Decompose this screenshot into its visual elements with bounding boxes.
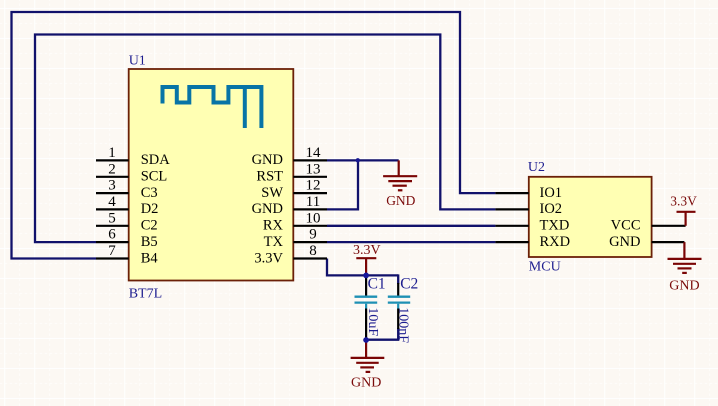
svg-text:GND: GND — [252, 201, 283, 217]
capacitor C2 — [388, 275, 418, 343]
U1 pin 4 (D2) — [96, 194, 158, 217]
U1 pin 13 (RST) — [256, 161, 327, 184]
svg-text:TXD: TXD — [540, 218, 570, 234]
ground GND bottom symbol — [351, 340, 385, 372]
svg-text:U2: U2 — [528, 160, 545, 175]
wire net B4 to U2 IO1 — [12, 12, 496, 259]
junction at GND net — [356, 158, 360, 162]
svg-text:D2: D2 — [141, 201, 159, 217]
U2 pin TXD — [495, 218, 569, 234]
svg-text:3.3V: 3.3V — [353, 243, 381, 258]
ground GND mid symbol — [383, 160, 417, 190]
svg-text:C2: C2 — [141, 218, 158, 234]
svg-text:9: 9 — [309, 227, 317, 243]
U1 pin 7 (B4) — [96, 243, 158, 266]
svg-text:BT7L: BT7L — [129, 286, 162, 301]
svg-text:SW: SW — [261, 185, 283, 201]
capacitor C1 — [355, 275, 386, 339]
svg-text:100nF: 100nF — [396, 307, 411, 343]
U1 pin 12 (SW) — [261, 178, 327, 201]
svg-text:11: 11 — [306, 194, 320, 210]
U1 pin 3 (C3) — [96, 178, 158, 201]
U1 antenna wave symbol — [163, 87, 262, 128]
wire C2 top branch — [397, 274, 399, 284]
U1 pin 1 (SDA) — [96, 145, 170, 168]
svg-text:13: 13 — [306, 161, 321, 177]
svg-text:6: 6 — [108, 227, 116, 243]
junction at bottom GND node — [363, 337, 369, 343]
svg-text:1: 1 — [108, 145, 116, 161]
svg-text:IO2: IO2 — [540, 201, 563, 217]
svg-text:U1: U1 — [129, 54, 146, 69]
U1 pin 8 (3.3V) — [254, 243, 327, 266]
svg-text:7: 7 — [108, 243, 116, 259]
svg-text:SCL: SCL — [141, 169, 168, 185]
U1 pin 10 (RX) — [263, 210, 327, 233]
svg-text:RX: RX — [263, 218, 284, 234]
IC U1 body — [129, 69, 294, 281]
power 3.3V mid symbol — [356, 258, 376, 275]
svg-text:GND: GND — [669, 278, 699, 293]
svg-text:MCU: MCU — [529, 259, 561, 274]
IC U2 body — [529, 177, 652, 257]
U1 pin 9 (TX) — [264, 227, 327, 250]
svg-text:B5: B5 — [141, 234, 158, 250]
U2 pin IO1 — [495, 185, 562, 201]
svg-text:12: 12 — [306, 178, 321, 194]
svg-text:C2: C2 — [400, 275, 418, 292]
U1 pin 5 (C2) — [96, 210, 158, 233]
wire net TX to RXD — [327, 241, 495, 243]
svg-text:GND: GND — [386, 193, 415, 208]
wire bottom GND link C1 to C2 — [366, 328, 398, 340]
power 3.3V U2 symbol — [677, 212, 696, 226]
ground GND U2 symbol — [668, 242, 702, 273]
U1 pin 14 (GND) — [252, 145, 327, 168]
svg-text:B4: B4 — [141, 250, 159, 266]
svg-text:3: 3 — [108, 178, 116, 194]
svg-text:IO1: IO1 — [540, 185, 563, 201]
junction at 3.3V net — [363, 273, 369, 279]
svg-text:GND: GND — [351, 375, 381, 390]
svg-text:3.3V: 3.3V — [670, 193, 697, 208]
svg-text:RXD: RXD — [540, 234, 571, 250]
svg-text:GND: GND — [252, 152, 283, 168]
U1 pin 2 (SCL) — [96, 161, 167, 184]
U2 pin IO2 — [495, 201, 562, 217]
wire GND net from pin 14 — [327, 159, 399, 161]
svg-text:5: 5 — [108, 210, 116, 226]
wire 3.3V net from pin 8 — [327, 259, 398, 276]
svg-text:8: 8 — [309, 243, 317, 259]
svg-text:10: 10 — [306, 210, 321, 226]
wire net RX to TXD — [327, 225, 495, 227]
U2 pin RXD — [495, 234, 570, 250]
U1 pin 6 (B5) — [96, 227, 158, 250]
wire net B5 to U2 IO2 — [35, 35, 495, 243]
svg-text:TX: TX — [264, 234, 284, 250]
svg-text:4: 4 — [108, 194, 116, 210]
svg-text:2: 2 — [108, 161, 116, 177]
wire GND net branch to pin 11 — [327, 160, 358, 209]
svg-text:SDA: SDA — [141, 152, 171, 168]
svg-text:3.3V: 3.3V — [254, 250, 283, 266]
svg-text:VCC: VCC — [611, 218, 641, 234]
U2 pin GND — [609, 234, 684, 250]
svg-text:14: 14 — [306, 145, 322, 161]
svg-text:10uF: 10uF — [365, 307, 380, 336]
svg-text:C1: C1 — [368, 275, 386, 292]
svg-text:GND: GND — [609, 234, 640, 250]
U2 pin VCC — [611, 218, 686, 234]
svg-text:RST: RST — [256, 169, 283, 185]
svg-text:C3: C3 — [141, 185, 158, 201]
U1 pin 11 (GND) — [252, 194, 327, 217]
